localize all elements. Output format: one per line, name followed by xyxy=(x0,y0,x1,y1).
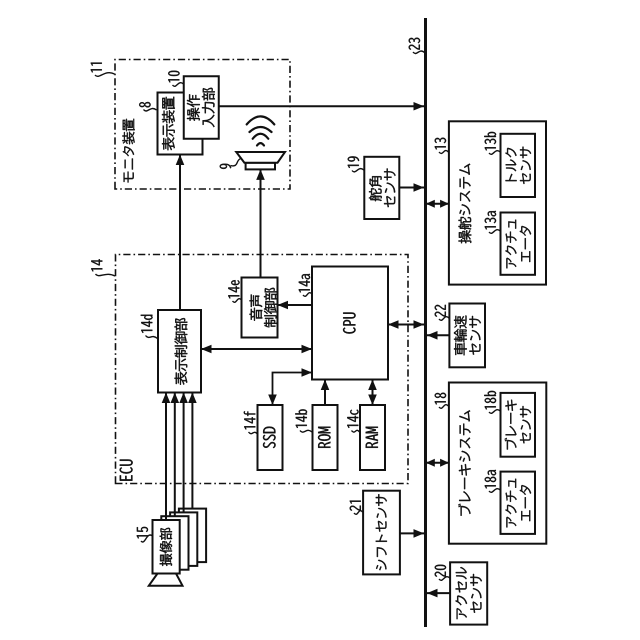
label 20 xyxy=(435,565,450,581)
wire accelerator sensor -> bus xyxy=(427,589,450,598)
brake system ブレーキシステム 18 xyxy=(449,383,546,544)
operation input unit 操作入力部 10 (overlapping) xyxy=(184,76,219,139)
ROM 14b xyxy=(313,405,338,470)
speaker 9 xyxy=(236,152,285,169)
speaker sound waves xyxy=(247,116,275,145)
label 13 xyxy=(435,138,449,154)
wire audio control -> speaker xyxy=(256,169,265,277)
actuator 18a xyxy=(501,472,536,534)
label 18 xyxy=(435,393,449,409)
wire display-control -> display device xyxy=(176,155,185,311)
ECU text xyxy=(120,460,133,481)
label 11 xyxy=(91,63,115,77)
monitor device text xyxy=(122,119,134,183)
display control unit 表示制御部 14d xyxy=(158,310,201,393)
label 23 xyxy=(409,38,425,54)
CPU 14a xyxy=(312,267,388,380)
brake sensor 18b xyxy=(501,393,536,457)
wire CPU -> audio control xyxy=(278,301,313,310)
label 13b xyxy=(484,132,500,154)
label 15 xyxy=(137,527,153,542)
label 14c xyxy=(347,410,359,433)
wire shift sensor -> bus xyxy=(400,529,424,538)
wire bus <-> steering system (double arrow) xyxy=(426,200,449,208)
shift sensor シフトセンサ 21 xyxy=(363,491,400,575)
label 8 xyxy=(139,102,156,111)
actuator 13a xyxy=(501,213,536,275)
label 22 xyxy=(435,305,449,320)
label 14 xyxy=(91,259,115,276)
ECU box 14 (dash-dot) xyxy=(116,255,409,484)
wire camera 4 to display control xyxy=(188,393,197,509)
display device 表示装置 8 xyxy=(158,93,203,155)
camera lens xyxy=(149,574,183,586)
label 14f xyxy=(244,411,258,434)
wire bus <-> brake system (double arrow) xyxy=(426,459,449,467)
SSD 14f xyxy=(258,405,283,470)
label 18a xyxy=(485,470,501,492)
wire steering angle sensor -> bus xyxy=(399,183,424,192)
wire ROM -> CPU xyxy=(321,380,330,406)
label 14e xyxy=(228,280,241,302)
steering system 操舵システム 13 xyxy=(449,121,546,284)
wire CPU <-> SSD (elbow, double arrow) xyxy=(268,368,312,405)
label 19 xyxy=(348,156,364,171)
steering angle sensor 舵角センサ 19 xyxy=(364,157,399,219)
label 14a xyxy=(299,274,312,296)
label 9 xyxy=(220,159,241,169)
label 21 xyxy=(350,501,363,515)
wire camera 2 to display control xyxy=(171,393,180,517)
wire camera 3 to display control xyxy=(179,393,188,513)
wire CPU <-> bus (double arrow) xyxy=(388,320,424,329)
monitor device box モニタ装置 11 (dash-dot) xyxy=(115,60,290,190)
imaging units 撮像部 15 (stacked boxes) xyxy=(153,509,207,574)
accelerator sensor アクセルセンサ 20 xyxy=(450,562,487,624)
wire camera 1 to display control xyxy=(162,393,171,521)
label 14d xyxy=(141,315,158,339)
bus line (in-vehicle network) 23 xyxy=(424,18,427,627)
RAM 14c xyxy=(360,405,385,470)
label 14b xyxy=(295,409,312,432)
label 13a xyxy=(485,211,501,233)
label 10 xyxy=(168,71,183,87)
wire wheel speed sensor -> bus xyxy=(427,331,449,340)
torque sensor 13b xyxy=(501,134,536,197)
label 18b xyxy=(484,391,500,413)
wire RAM <-> CPU (double arrow) xyxy=(368,380,377,406)
audio control unit 音声制御部 14e xyxy=(242,278,278,338)
wheel speed sensor 車輪速センサ 22 xyxy=(449,304,485,368)
wire display-control <-> CPU (double arrow) xyxy=(201,345,312,354)
wire operation input -> bus xyxy=(219,102,424,111)
